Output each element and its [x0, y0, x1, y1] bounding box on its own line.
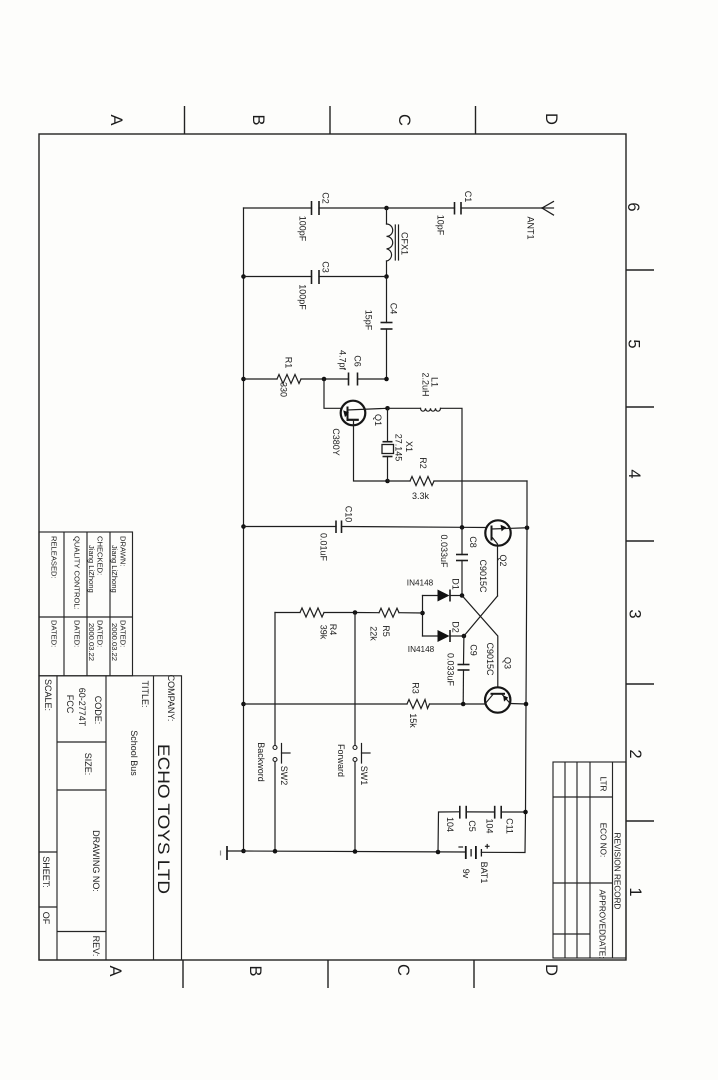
wire R4 left	[275, 612, 300, 614]
svg-text:IN4148: IN4148	[407, 579, 434, 588]
svg-text:D1: D1	[451, 578, 461, 590]
wire left bus vertical	[243, 208, 245, 851]
size/drawing divider	[57, 789, 106, 791]
svg-text:60-2774T: 60-2774T	[77, 688, 87, 727]
node R3 bus	[241, 702, 246, 707]
svg-text:FCC: FCC	[65, 695, 75, 714]
antenna ANT1	[542, 202, 554, 216]
svg-text:10pF: 10pF	[436, 215, 446, 236]
svg-text:B: B	[249, 114, 267, 125]
wire R1 to C6 node	[301, 378, 349, 380]
capacitor C5	[460, 806, 466, 819]
resistor R3	[407, 700, 430, 709]
svg-text:Jiang LiZhong: Jiang LiZhong	[87, 545, 96, 593]
svg-text:C1: C1	[463, 191, 473, 203]
svg-text:15pF: 15pF	[364, 310, 374, 331]
svg-text:RELEASED:: RELEASED:	[50, 536, 59, 579]
switch SW2	[273, 613, 290, 852]
code/size divider	[57, 741, 106, 743]
node CFX1 top	[384, 206, 389, 211]
REVTABLE	[553, 762, 626, 959]
svg-text:DATED:: DATED:	[73, 620, 82, 647]
revision col eco/approved	[553, 882, 613, 884]
svg-text:C: C	[395, 114, 413, 126]
svg-text:330: 330	[279, 382, 289, 397]
wire Q1 emitter down	[354, 424, 388, 481]
wire R2 to rail	[434, 480, 527, 482]
svg-text:R3: R3	[411, 682, 421, 694]
svg-text:Jiang LiZhong: Jiang LiZhong	[110, 545, 119, 593]
svg-text:TITLE:: TITLE:	[140, 680, 150, 707]
revision row line 2	[576, 762, 578, 958]
transistor Q2	[485, 520, 527, 596]
wire C3 row right	[319, 276, 387, 278]
svg-text:IN4148: IN4148	[408, 645, 435, 654]
svg-text:2.2uH: 2.2uH	[421, 372, 431, 396]
node Q3 emitter rail	[524, 702, 529, 707]
wire C2 to CFX1 node	[319, 207, 387, 209]
wire cross diagonal D1 to Q3	[462, 596, 498, 688]
svg-text:C9015C: C9015C	[485, 642, 495, 676]
resistor R5	[379, 608, 399, 617]
node R4 R5 junction	[353, 610, 358, 615]
svg-text:R1: R1	[284, 357, 294, 369]
wire R4 right	[324, 612, 355, 614]
svg-text:2000.03.22: 2000.03.22	[87, 623, 96, 661]
TITLEBLOCK	[39, 532, 182, 960]
capacitor C11	[495, 806, 502, 819]
grid tick bottom C|D	[473, 960, 475, 988]
svg-text:C: C	[394, 964, 412, 976]
wire antenna feed	[387, 207, 455, 209]
svg-text:104: 104	[445, 817, 455, 832]
resistor R2	[410, 477, 434, 486]
node ground bus	[241, 849, 246, 854]
resistor R1	[277, 375, 301, 384]
svg-text:0.033uF: 0.033uF	[439, 534, 449, 568]
scale/sheet divider	[39, 851, 57, 853]
svg-text:4: 4	[625, 469, 643, 478]
transistor Q1	[341, 401, 388, 426]
svg-text:D: D	[542, 113, 560, 125]
capacitor C2	[312, 201, 320, 215]
node D1 cathode	[460, 593, 465, 598]
node Q2 emitter rail	[525, 526, 530, 531]
wire L1 row	[388, 407, 421, 409]
drawing/rev divider	[57, 931, 106, 933]
grid tick top C|D	[475, 106, 477, 134]
svg-text:CFX1: CFX1	[400, 232, 410, 255]
node C10 bus	[241, 524, 246, 529]
svg-text:C380Y: C380Y	[331, 428, 341, 456]
wire C4 branch bottom	[386, 329, 388, 379]
svg-text:School Bus: School Bus	[129, 730, 139, 776]
svg-text:5: 5	[625, 339, 643, 348]
wire Q3 emitter to rail	[510, 703, 526, 706]
node C9 R3 junction	[461, 702, 466, 707]
wire R1 left	[244, 378, 278, 380]
grid tick bottom A|B	[182, 960, 184, 988]
signoff row line 3	[109, 532, 111, 676]
svg-text:C9: C9	[469, 644, 479, 656]
revision record header line	[612, 762, 614, 958]
svg-text:ECO NO:: ECO NO:	[599, 823, 608, 858]
svg-text:DATED:: DATED:	[50, 620, 59, 647]
svg-text:C8: C8	[468, 536, 478, 548]
svg-text:A: A	[107, 114, 125, 125]
node C3 bus	[241, 274, 246, 279]
svg-text:C2: C2	[321, 192, 331, 204]
signoff table outline	[39, 532, 133, 676]
node L1 C8 Q2 base junction	[460, 525, 465, 530]
svg-text:C10: C10	[344, 506, 354, 523]
capacitor C9	[458, 636, 470, 704]
svg-text:100pF: 100pF	[298, 284, 308, 310]
wire C1 to antenna	[461, 207, 542, 209]
node X1 bottom emitter	[385, 479, 390, 484]
node C4 C6 junction	[384, 377, 389, 382]
svg-text:Backword: Backword	[256, 742, 266, 782]
svg-text:Q1: Q1	[373, 414, 383, 426]
grid tick right 5|4	[626, 406, 654, 408]
resistor R4	[300, 608, 324, 617]
svg-text:QUALITY CONTROL:: QUALITY CONTROL:	[73, 536, 82, 610]
node Q1 collector	[385, 406, 390, 411]
grid tick bottom B|C	[327, 960, 329, 988]
company col line scale	[56, 676, 58, 960]
svg-text:Q2: Q2	[498, 554, 508, 566]
svg-text:X1: X1	[404, 441, 414, 452]
grid tick right 4|3	[626, 540, 654, 542]
svg-text:C3: C3	[321, 261, 331, 273]
wire R3 to C9 node	[430, 703, 486, 705]
capacitor C1	[455, 202, 462, 215]
wire R5 right	[399, 612, 423, 614]
svg-text:B: B	[246, 965, 264, 976]
wire C11 to rail node	[501, 811, 525, 813]
svg-text:104: 104	[485, 818, 495, 833]
svg-text:0.01uF: 0.01uF	[319, 533, 329, 562]
grid tick right 6|5	[626, 269, 654, 271]
svg-text:R2: R2	[418, 457, 428, 469]
node SW1 bottom	[353, 849, 358, 854]
switch SW1	[353, 613, 370, 852]
wire C10 row right	[342, 527, 486, 528]
battery BAT1	[459, 845, 489, 860]
inductor L1	[421, 408, 441, 411]
node C5 corner bus	[436, 850, 441, 855]
svg-text:2: 2	[626, 749, 644, 758]
svg-text:COMPANY:: COMPANY:	[166, 675, 176, 722]
wire cross diagonal Q2 to D2	[464, 596, 498, 636]
svg-text:9v: 9v	[461, 869, 471, 879]
node CFX1 bottom	[384, 274, 389, 279]
wire C3 row left	[244, 276, 312, 278]
svg-text:SIZE:: SIZE:	[83, 753, 93, 776]
border frame	[39, 134, 626, 960]
svg-text:R4: R4	[328, 624, 338, 636]
svg-text:4.7pf: 4.7pf	[338, 350, 348, 371]
ground	[221, 846, 244, 860]
grid tick right 2|1	[626, 820, 654, 822]
wire Q1 base	[324, 379, 341, 408]
svg-text:22k: 22k	[369, 626, 379, 641]
capacitor C6	[349, 373, 358, 386]
wire C10 row left	[244, 526, 337, 528]
signoff row line 2	[86, 532, 88, 676]
capacitor C10	[336, 521, 342, 534]
svg-text:2000.03.22: 2000.03.22	[110, 623, 119, 661]
wire R3 row left	[244, 703, 408, 705]
svg-text:15k: 15k	[408, 713, 418, 728]
svg-text:Q3: Q3	[503, 657, 513, 669]
company table outline	[39, 676, 182, 960]
svg-text:3.3k: 3.3k	[412, 491, 430, 501]
svg-text:SHEET:: SHEET:	[41, 856, 51, 888]
wire R2 left	[388, 480, 411, 482]
svg-text:D: D	[542, 964, 560, 976]
wire D1 D2 link	[422, 596, 424, 637]
svg-text:D2: D2	[451, 621, 461, 633]
wire R5 left	[355, 612, 379, 614]
svg-text:0.033uF: 0.033uF	[446, 653, 456, 687]
node D2 cathode	[462, 634, 467, 639]
svg-text:1: 1	[626, 887, 644, 896]
wire C6 right	[358, 378, 387, 380]
svg-text:CODE:: CODE:	[93, 696, 103, 725]
revision row line 1	[564, 762, 566, 958]
transistor Q3	[485, 687, 510, 712]
crystal X1	[382, 408, 394, 481]
node SW2 bottom	[273, 849, 278, 854]
svg-text:REV:: REV:	[91, 936, 101, 957]
wire battery to rail corner	[481, 812, 525, 853]
svg-text:ECHO TOYS LTD: ECHO TOYS LTD	[154, 744, 172, 894]
svg-text:C9015C: C9015C	[478, 559, 488, 593]
wire C4 branch top	[386, 277, 388, 323]
grid tick right 3|2	[626, 683, 654, 685]
svg-text:REVISION RECORD: REVISION RECORD	[613, 833, 622, 910]
wire L1 to down corner	[441, 408, 463, 527]
svg-text:27.145: 27.145	[394, 434, 404, 462]
svg-text:SW1: SW1	[359, 766, 369, 786]
capacitor C8	[456, 527, 468, 595]
svg-text:LTR: LTR	[599, 777, 608, 792]
sheet/of divider	[39, 906, 57, 908]
revision table outline	[553, 762, 626, 958]
diode D1	[423, 590, 463, 602]
grid tick top A|B	[184, 106, 186, 134]
node battery rail	[523, 810, 528, 815]
node Q1 base tap	[322, 377, 327, 382]
svg-text:3: 3	[626, 609, 644, 618]
svg-text:100pF: 100pF	[298, 216, 308, 242]
node R1 bus	[241, 377, 246, 382]
svg-text:Forward: Forward	[336, 744, 346, 777]
company col line code	[105, 676, 107, 960]
revision header row line	[589, 762, 591, 958]
capacitor C4	[381, 323, 393, 330]
svg-text:SW2: SW2	[279, 766, 289, 786]
svg-text:BAT1: BAT1	[479, 862, 489, 884]
svg-text:R5: R5	[381, 625, 391, 637]
revision col ltr/eco	[553, 796, 613, 798]
svg-text:C11: C11	[505, 818, 515, 834]
svg-text:6: 6	[624, 202, 642, 211]
svg-text:C5: C5	[467, 820, 477, 832]
svg-text:C6: C6	[353, 355, 363, 367]
svg-text:A: A	[106, 965, 124, 976]
node R5 link	[420, 611, 425, 616]
revision col approved/date	[553, 933, 590, 935]
signoff row line 1	[63, 532, 65, 676]
svg-text:OF: OF	[41, 912, 51, 925]
svg-text:DRAWING NO:: DRAWING NO:	[91, 830, 101, 892]
wire bottom bus	[244, 851, 466, 852]
wire C2 row	[244, 207, 312, 209]
svg-text:SCALE:: SCALE:	[43, 679, 53, 711]
svg-text:39k: 39k	[319, 625, 329, 640]
wire C5 to C11	[466, 811, 495, 813]
inductor CFX1	[387, 208, 399, 277]
grid tick top B|C	[329, 106, 331, 134]
capacitor C3	[312, 270, 320, 284]
svg-text:ANT1: ANT1	[526, 216, 536, 239]
wire C5 branch up	[438, 812, 460, 852]
diode D2	[423, 630, 464, 642]
signoff dated divider	[39, 616, 133, 618]
svg-text:C4: C4	[389, 303, 399, 315]
wire positive rail	[526, 481, 528, 812]
company col line title	[153, 676, 155, 960]
svg-text:APPROVEDDATE:: APPROVEDDATE:	[598, 889, 607, 958]
